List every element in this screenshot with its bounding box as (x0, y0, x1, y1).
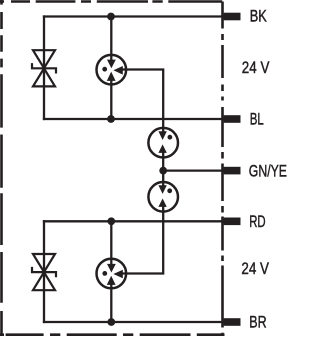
wire bottom GDT upper shaft (110, 221, 112, 264)
wire BR line (43, 321, 224, 323)
wire RD line (43, 220, 224, 222)
terminal block BL (224, 115, 241, 123)
svg-text:24 V: 24 V (242, 59, 270, 77)
wire middle column between GDT1 and GDT2 (162, 152, 164, 185)
junction dot GN/YE middle column (159, 167, 167, 175)
terminal block BR (224, 318, 241, 326)
gas discharge tube middle upper (2-electrode) (148, 128, 178, 158)
suppressor diode bottom (bidirectional TVS) (32, 254, 56, 290)
terminal block GN/YE (224, 167, 241, 175)
wire BL line (43, 118, 224, 120)
junction dot RD/bottom-GDT (107, 217, 115, 225)
svg-text:BK: BK (250, 7, 267, 25)
enclosure dashed border bottom (0, 333, 225, 336)
junction dot BL/top-GDT (107, 115, 115, 123)
wire bottom GDT lower shaft (110, 284, 112, 322)
wire BK line (43, 15, 224, 17)
svg-text:BL: BL (250, 110, 264, 128)
junction dot BR/bottom-GDT (107, 318, 115, 326)
gas discharge tube top (3-electrode) (97, 55, 127, 85)
gas discharge tube middle lower (2-electrode) (148, 182, 178, 212)
wire GN/YE line (163, 169, 224, 171)
terminal block BK (224, 13, 241, 21)
wire left branch bottom (RD to BR through suppressor) (43, 220, 45, 323)
suppressor diode top (bidirectional TVS) (32, 50, 56, 86)
wire top GDT lower shaft (110, 81, 112, 120)
enclosure dashed border left (0, 0, 3, 336)
svg-text:RD: RD (249, 213, 265, 231)
wire left branch top (BK to BL through suppressor) (43, 15, 45, 120)
gas discharge tube bottom (3-electrode) (97, 259, 127, 289)
wire middle column GDT2 to bottom GDT right electrode (122, 206, 163, 273)
enclosure dashed border top (0, 0, 222, 3)
wire top GDT upper shaft (110, 17, 112, 61)
svg-text:GN/YE: GN/YE (249, 163, 287, 181)
svg-text:BR: BR (249, 314, 266, 332)
junction dot BK/top-GDT (107, 13, 115, 21)
wire top GDT right electrode to middle column (122, 70, 163, 132)
svg-text:24 V: 24 V (241, 260, 269, 278)
enclosure dashed border right (221, 2, 224, 337)
terminal block RD (224, 218, 241, 226)
